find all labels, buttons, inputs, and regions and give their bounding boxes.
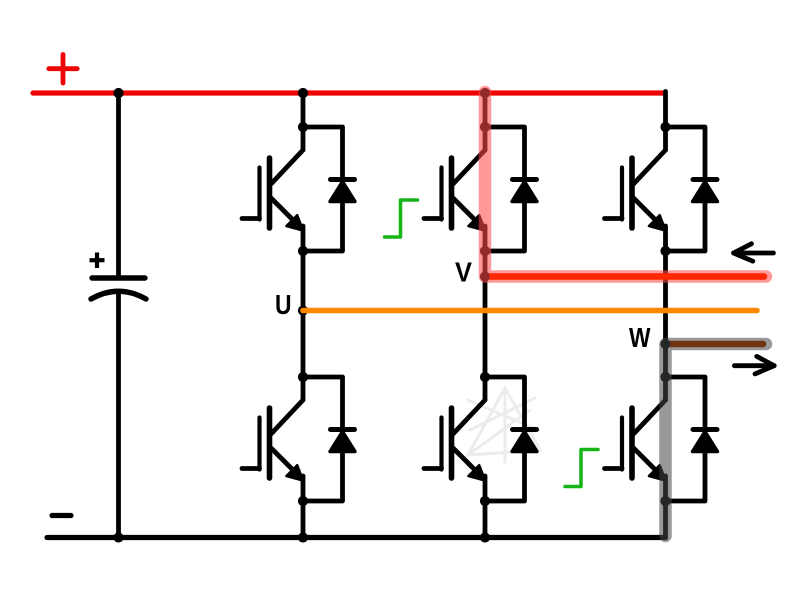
svg-text:V: V (455, 257, 472, 288)
svg-text:W: W (629, 322, 651, 353)
svg-text:U: U (275, 289, 292, 320)
